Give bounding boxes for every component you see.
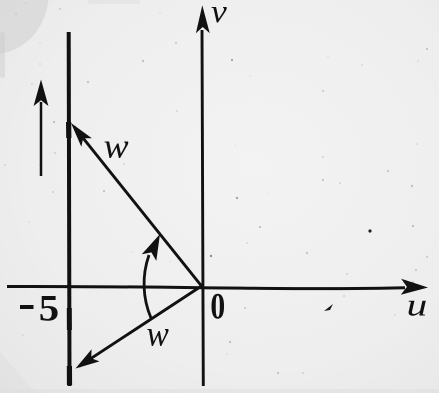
vector w upper arrowhead bbox=[71, 123, 92, 147]
svg-text:w: w bbox=[147, 314, 169, 354]
scan shading top edge smudge bbox=[88, 0, 140, 4]
svg-text:w: w bbox=[104, 127, 129, 166]
svg-text:5: 5 bbox=[39, 288, 59, 329]
scan shading top-left corner bbox=[0, 0, 49, 54]
vertical line blob 1 bbox=[66, 122, 71, 138]
angle arc bbox=[144, 255, 151, 318]
dark speck bbox=[368, 229, 371, 232]
scan shading left edge smudge bbox=[0, 32, 5, 78]
svg-text:v: v bbox=[211, 0, 228, 29]
scan shading bottom-left corner bbox=[0, 352, 36, 393]
angle arc arrowhead bbox=[142, 234, 160, 261]
vertical line blob 3 bbox=[67, 366, 72, 385]
v axis arrowhead bbox=[196, 5, 210, 33]
vector w upper shaft bbox=[74, 127, 202, 286]
u axis arrowhead bbox=[401, 279, 428, 295]
vertical line blob 2 bbox=[67, 308, 72, 330]
label -5 minus sign bbox=[20, 305, 34, 309]
vector w lower arrowhead bbox=[76, 349, 100, 368]
small tick mark bbox=[324, 304, 333, 311]
svg-text:u: u bbox=[407, 288, 428, 323]
vector w lower shaft bbox=[79, 286, 202, 366]
left small up arrowhead bbox=[34, 80, 49, 107]
svg-text:0: 0 bbox=[210, 286, 225, 327]
u axis shaft bbox=[7, 286, 405, 288]
scan shading bottom edge bbox=[0, 389, 439, 393]
vertical line u=-5 bbox=[67, 32, 72, 386]
left small up arrow shaft bbox=[40, 102, 43, 176]
v axis shaft bbox=[202, 30, 203, 386]
